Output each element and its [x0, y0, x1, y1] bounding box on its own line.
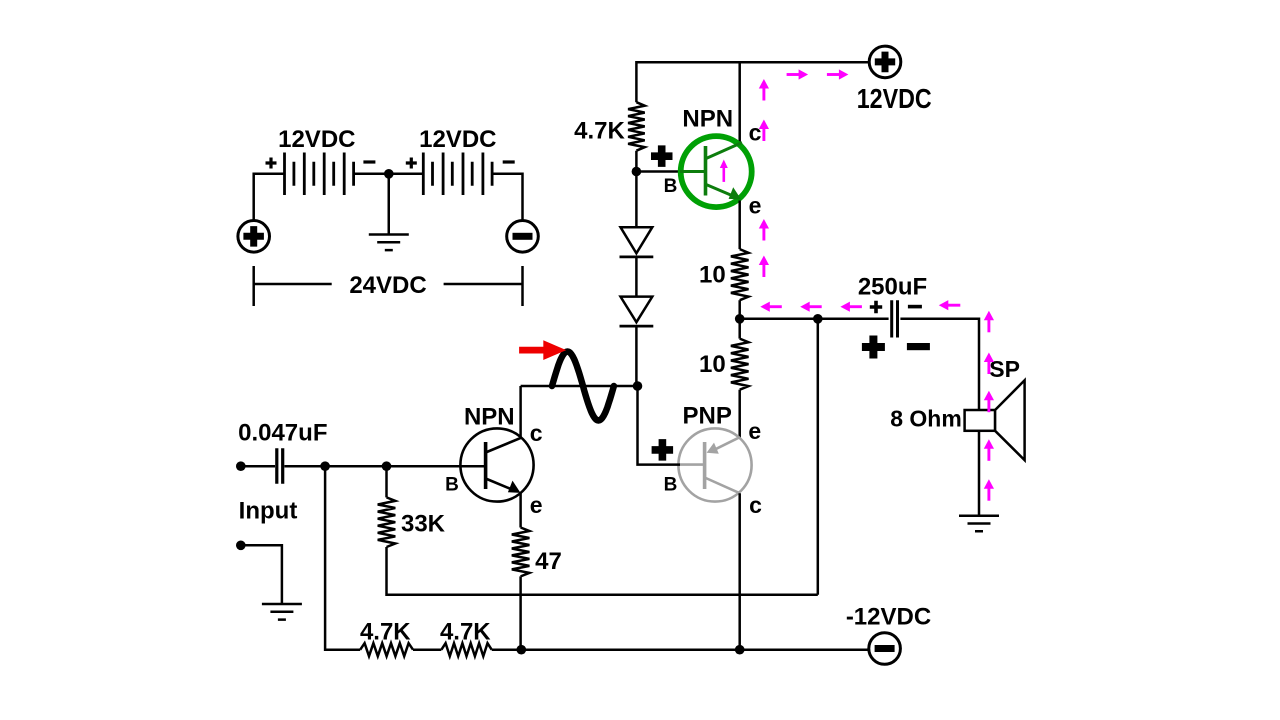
junction dot 33K tap	[382, 461, 392, 471]
transistor Q3 collector line	[705, 478, 740, 494]
wire battery left lead	[254, 174, 285, 221]
svg-text:10: 10	[699, 351, 726, 378]
transistor Q3 base bar	[703, 442, 707, 489]
svg-text:33K: 33K	[401, 511, 446, 538]
small plus B1	[266, 158, 277, 169]
bold plus at Q1 base	[651, 145, 673, 167]
terminal +12VDC circle	[869, 46, 901, 78]
wire battery center tap	[354, 173, 424, 176]
transistor Q2 NPN input circle	[460, 428, 533, 501]
transistor Q3 emitter line with inward arrow	[716, 437, 740, 449]
resistor R6 4.7K horizontal	[360, 643, 413, 656]
svg-text:NPN: NPN	[682, 106, 733, 133]
wire Q3 collector to bottom rail	[738, 493, 741, 650]
wire Q2 emitter to resistor R5	[519, 493, 522, 528]
wire feedback rail up to output node	[817, 319, 820, 594]
24VDC bracket left tick	[252, 266, 255, 306]
resistor R4 33K wire top	[385, 466, 388, 497]
24VDC bracket right line	[444, 283, 523, 286]
transistor Q3 PNP (gray) circle	[678, 428, 751, 501]
junction dot bias feed	[320, 461, 330, 471]
bold plus at Q3 base	[652, 439, 674, 461]
current arrows left along output rail	[769, 305, 782, 308]
svg-text:10: 10	[699, 262, 726, 289]
wire diode D2 to signal node	[635, 326, 638, 386]
svg-text:PNP: PNP	[683, 403, 732, 430]
svg-text:47: 47	[535, 548, 562, 575]
transistor Q1 base lead inside	[680, 170, 706, 173]
small minus at C2	[908, 305, 922, 309]
svg-text:12VDC: 12VDC	[278, 126, 355, 153]
wire Q1 emitter down to resistor R2	[738, 201, 741, 250]
battery center junction dot	[384, 169, 394, 179]
wire bottom rail to -12VDC terminal	[492, 648, 869, 651]
wire battery center to ground	[388, 174, 391, 234]
ground below speaker	[959, 516, 999, 532]
wire resistor R3 top	[738, 319, 741, 339]
current arrows right along top rail	[787, 73, 800, 76]
svg-text:12VDC: 12VDC	[419, 126, 496, 153]
transistor Q3 base lead inside	[679, 463, 705, 466]
node base of Q1 junction dot	[632, 167, 642, 177]
wire between R6 and R7	[413, 648, 441, 651]
small plus B2	[406, 158, 417, 169]
speaker SP horn	[995, 380, 1025, 460]
resistor R1 4.7K	[628, 102, 645, 151]
svg-text:e: e	[748, 418, 761, 444]
current arrows up along Q1 emitter	[762, 228, 765, 241]
transistor Q1 emitter line with arrow	[706, 184, 733, 195]
wire input ground stub	[241, 545, 282, 603]
wire Q1 collector lead to top rail	[738, 62, 741, 142]
terminal battery minus circle	[507, 221, 539, 253]
svg-text:4.7K: 4.7K	[574, 118, 625, 145]
battery B2 cells	[423, 153, 492, 196]
transistor Q2 base bar	[484, 442, 488, 489]
diode D2	[621, 297, 653, 323]
svg-text:B: B	[664, 176, 678, 197]
24VDC bracket right tick	[521, 266, 524, 306]
24VDC bracket left line	[254, 283, 332, 286]
svg-text:12VDC: 12VDC	[857, 83, 932, 114]
svg-text:c: c	[749, 492, 762, 518]
red arrow pointing at signal	[519, 347, 545, 354]
svg-text:8 Ohm: 8 Ohm	[890, 406, 962, 432]
bold plus below C2	[862, 336, 885, 359]
terminal -12VDC circle	[869, 633, 901, 665]
svg-text:B: B	[445, 475, 459, 496]
svg-text:c: c	[530, 420, 543, 446]
junction dot R5 bottom	[517, 645, 527, 655]
transistor Q1 NPN (green) circle	[681, 136, 752, 207]
wire output rail to capacitor C2	[740, 318, 889, 321]
battery B1 cells	[285, 153, 354, 196]
svg-text:4.7K: 4.7K	[440, 619, 491, 646]
output node junction dot	[735, 314, 745, 324]
resistor R4 33K	[378, 497, 396, 547]
transistor Q2 collector line	[486, 438, 521, 453]
svg-text:Input: Input	[239, 498, 298, 525]
svg-text:c: c	[749, 120, 762, 146]
sine wave symbol	[552, 352, 614, 421]
resistor R7 4.7K horizontal	[441, 643, 491, 656]
svg-text:NPN: NPN	[464, 404, 515, 431]
wire R5 bottom to bottom rail	[519, 576, 522, 649]
svg-text:SP: SP	[989, 356, 1020, 382]
svg-text:-12VDC: -12VDC	[846, 603, 931, 630]
input terminal dot	[236, 461, 246, 471]
junction dot feedback node	[813, 314, 823, 324]
speaker SP rectangle	[965, 410, 996, 431]
junction dot Q3 collector bottom	[735, 645, 745, 655]
wire speaker to ground	[978, 431, 981, 515]
wire battery right lead	[492, 174, 522, 221]
wire bias column down from input junction	[325, 466, 360, 650]
wire input to capacitor C1	[241, 465, 275, 468]
bold minus below C2	[907, 343, 930, 350]
resistor R3 10 ohm	[731, 339, 749, 390]
resistor R5 47	[512, 528, 530, 577]
wire C2 to speaker corner	[900, 319, 979, 410]
small minus B2	[503, 160, 515, 163]
ground at input	[262, 604, 302, 620]
svg-text:0.047uF: 0.047uF	[238, 420, 327, 447]
current arrows up along speaker branch	[987, 319, 990, 332]
wire Q2 collector up to signal wire	[519, 386, 522, 439]
current arrows up along Q1 collector	[762, 88, 765, 101]
terminal battery plus circle	[238, 221, 270, 253]
wire C1 to Q2 base	[284, 465, 485, 468]
wire R4 bottom to feedback rail	[387, 547, 818, 595]
svg-text:e: e	[530, 492, 543, 518]
signal node junction dot	[633, 381, 643, 391]
wire between diode D1 and D2	[635, 257, 638, 297]
wire signal with sine overlay to Q2 collector	[521, 385, 638, 388]
svg-text:24VDC: 24VDC	[349, 272, 426, 299]
wire R3 bottom to Q3 emitter	[738, 390, 741, 438]
small minus B1	[363, 160, 375, 163]
current arrow inside Q1	[722, 167, 725, 182]
resistor R2 10 ohm	[731, 249, 749, 300]
svg-text:B: B	[664, 475, 678, 496]
transistor Q2 emitter line with arrow	[486, 479, 512, 490]
wire base lead of Q1	[636, 170, 682, 173]
wire R2 to output node	[738, 300, 741, 319]
svg-text:e: e	[749, 193, 762, 219]
transistor Q1 base bar	[704, 146, 708, 196]
wire R1 bottom through node to diode D1	[635, 151, 638, 228]
wire top rail from 4.7K resistor to +12VDC terminal	[636, 62, 869, 102]
capacitor C2 250uF plates	[892, 300, 898, 337]
small plus at C2	[870, 301, 882, 313]
svg-text:250uF: 250uF	[858, 274, 927, 301]
transistor Q1 collector line	[706, 143, 743, 159]
svg-text:4.7K: 4.7K	[360, 619, 411, 646]
wire signal node to Q3 base	[638, 386, 681, 465]
input ground terminal dot	[236, 541, 246, 551]
capacitor C1 0.047uF plates	[277, 448, 283, 483]
ground at battery center tap	[369, 235, 409, 251]
diode D1	[621, 227, 653, 253]
